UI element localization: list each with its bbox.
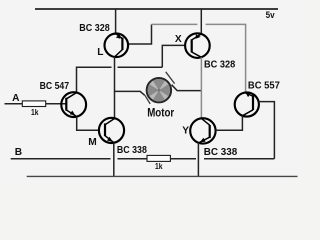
wire R2 to Q6 base (left of hop) — [170, 158, 196, 160]
wire gray cross-link top horizontal (left of crossing) — [152, 23, 198, 25]
wire Q5 emitter to ground — [197, 143, 199, 177]
wire R1 to Q3 base — [46, 103, 67, 105]
wire Q2 base lead — [162, 45, 185, 67]
transistor Q2 BC 328 PNP (X) — [185, 33, 210, 58]
resistor R1 1k body — [22, 101, 45, 107]
wire input B (right of hop) — [118, 158, 148, 160]
svg-text:Motor: Motor — [147, 107, 174, 119]
svg-text:B: B — [15, 147, 22, 158]
svg-text:BC 328: BC 328 — [79, 23, 110, 34]
motor terminal mark lower-left — [145, 95, 150, 104]
wire Q3 collector to Q2 base (left of hop) — [77, 67, 112, 92]
wire ground rail — [27, 175, 298, 177]
svg-text:M: M — [88, 137, 97, 148]
svg-text:L: L — [97, 47, 103, 58]
svg-text:BC 338: BC 338 — [204, 147, 238, 158]
wire Q3 emitter to Q4 base — [77, 117, 99, 131]
wire gray cross-link top horizontal (right of crossing) — [206, 23, 246, 25]
wire Q2 collector / Q5 collector vertical (gray) — [200, 57, 202, 118]
wire input B (left of hop) — [11, 158, 111, 160]
svg-text:X: X — [175, 34, 182, 45]
wire motor right lead — [172, 85, 202, 91]
wire Q3 collector to Q2 base (right of hop) — [118, 66, 163, 68]
wire gray vertical to Q6 emitter — [245, 24, 247, 92]
motor M1 body — [147, 78, 171, 102]
motor terminal mark upper-right — [166, 72, 175, 84]
wire motor left lead — [115, 91, 145, 95]
svg-text:BC 547: BC 547 — [40, 81, 70, 92]
wire Q1 emitter to 5V rail — [115, 9, 117, 34]
svg-text:5v: 5v — [266, 10, 276, 21]
svg-text:Y: Y — [182, 125, 189, 136]
svg-text:1k: 1k — [31, 107, 39, 117]
transistor Q1 BC 328 PNP (L) — [105, 34, 129, 58]
resistor R2 1k body — [147, 155, 170, 161]
wire Q1 collector / Q4 collector vertical — [114, 57, 116, 118]
transistor Q3 BC 547 NPN — [61, 92, 86, 117]
transistor Q5 BC 338 NPN (Y) — [190, 118, 215, 143]
svg-text:BC 338: BC 338 — [117, 145, 147, 156]
wire 5V rail — [35, 8, 278, 10]
wire Q1 base lead — [128, 24, 152, 44]
wire Q2 emitter to 5V rail — [200, 9, 202, 34]
transistor Q4 BC 338 NPN (M) — [99, 118, 124, 143]
svg-text:BC 328: BC 328 — [204, 60, 235, 71]
svg-text:BC 557: BC 557 — [248, 80, 280, 91]
wire Q6 collector to Q5 base — [216, 116, 243, 130]
wire Q6 base lead — [259, 102, 275, 159]
wire R2 to Q6 base (right of hop) — [204, 158, 274, 160]
svg-text:A: A — [12, 93, 20, 104]
wire Q4 emitter to ground — [113, 143, 115, 177]
transistor Q6 BC 557 PNP — [235, 92, 259, 116]
svg-text:1k: 1k — [155, 161, 163, 171]
wire input A — [5, 103, 23, 105]
